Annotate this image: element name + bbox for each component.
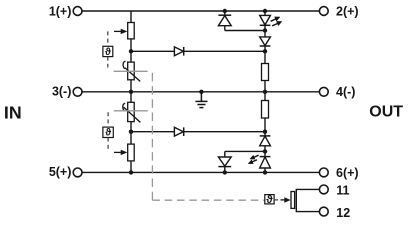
thermal sensor theta box TH1 [103,46,113,56]
svg-text:IN: IN [4,102,22,122]
node L (junction bottom rail x224.8) [223,170,227,174]
thermal sensor theta box TH3 (remote signalling) [265,195,274,204]
wire middle rail to varistor RV2 [130,92,132,103]
wire corner to diode D6 [224,151,226,157]
signalling contact actuator arrow [281,197,291,202]
varistor RV1 symbol diagonal [125,68,140,82]
thermal sensor theta box TH2 [103,127,113,137]
wire diode D3 corner to node H [225,30,265,32]
wire node K to diode D6 branch [225,150,265,152]
diode D5 (above LED2) [260,136,271,146]
terminal 6(+) [319,168,328,177]
node C (junction x131 y131.7) [129,130,133,134]
svg-text:ϑ: ϑ [105,47,111,58]
terminal 5(+) [73,168,82,177]
node M (junction bottom rail x265) [263,170,267,174]
varistor RV2 thermal disconnect hook [123,103,125,111]
svg-text:6(+): 6(+) [336,166,359,180]
node I (junction top rail x265) [263,9,267,13]
terminal 3(-) [73,87,82,96]
resistor F1 (series protection, line 1+) [128,23,135,39]
terminal 1(+) [73,7,82,16]
terminal 4(-) [319,87,328,96]
diode D3 (cathode to top rail) [218,15,231,26]
svg-text:12: 12 [336,206,350,220]
resistor F2 (series protection, line 5+) [128,144,135,161]
mechanical coupling dashed vertical link to signalling contact [151,71,153,200]
ground [195,101,207,107]
svg-text:1(+): 1(+) [49,4,72,18]
mechanical coupling dashed horizontal link to signalling contact [152,199,264,201]
wire diode D4 to resistor R1 [264,46,266,64]
thermal coupling dashed link below theta box TH1 [107,57,109,68]
diode D2 (horizontal, lower decoupling) [174,127,183,136]
wire resistor F2 to bottom rail [130,161,132,173]
wire middle rail to ground [200,92,202,102]
wire top rail from terminal 1(+) to terminal 2(+) [82,10,319,12]
wire diode D2 to node F [184,131,265,133]
wire top rail to LED1 [264,11,266,15]
wire node A to diode D1 [131,50,174,52]
varistor RV1 thermal disconnect hook [123,61,125,69]
varistor RV1 [128,62,135,80]
diode D1 (horizontal, upper decoupling) [174,47,183,56]
dashed link theta box TH3 to actuator [274,199,281,201]
varistor RV2 symbol diagonal [124,107,141,122]
mechanical coupling line through varistor RV2 [114,110,148,112]
resistor R2 [262,101,269,119]
diode D4 (below LED1) [260,37,271,46]
wire node C to diode D2 [131,131,174,133]
svg-text:2(+): 2(+) [336,4,359,18]
svg-text:5(+): 5(+) [49,165,72,179]
wire varistor RV2 to node C [130,122,132,145]
thermal coupling dashed link below theta box TH2 [107,138,109,151]
node K (junction x265 y151.4) [263,149,267,153]
wire diode D3 down to corner [224,26,226,31]
node E (junction x265 y51.3) [263,49,267,53]
node H (junction x265 y30.5) [263,28,267,32]
wire LED1 to diode D4 [264,25,266,37]
wire middle rail to resistor R2 [264,92,266,101]
mechanical coupling line through varistor RV1 [114,70,148,72]
terminal 12 [319,207,328,216]
terminal 11 [319,185,328,194]
svg-text:4(-): 4(-) [336,85,355,99]
diode D6 (cathode to bottom rail) [218,157,231,167]
node N (ground tap on middle rail) [199,90,203,94]
thermal coupling dashed link above theta box TH1 [107,31,109,46]
svg-text:11: 11 [336,184,349,198]
thermal coupling dashed link above theta box TH2 [107,112,109,127]
wire resistor R2 to diode D5 [264,118,266,136]
node D (junction bottom rail x131) [129,170,133,174]
wire resistor F1 to node A [130,39,132,62]
wire varistor RV1 to middle rail [130,80,132,92]
node J (junction middle rail x265) [263,90,267,94]
node A (junction x131 y51.3) [129,49,133,53]
node F (junction x265 y131.7) [263,130,267,134]
LED LED2 emission arrows [248,155,258,163]
signalling contact S1 movable bridge [291,192,295,209]
wire top rail to diode D3 [224,11,226,15]
LED LED2 (status indicator, bottom) [260,157,271,168]
node B (junction middle rail x131) [129,90,133,94]
svg-text:ϑ: ϑ [105,128,111,139]
wire diode D5 to LED2 [264,146,266,157]
LED LED1 (status indicator, top) [260,15,271,25]
wire LED2 to bottom rail [264,168,266,172]
wire bottom rail from terminal 5(+) to terminal 6(+) [82,171,319,173]
node G (junction top rail x224.8) [223,9,227,13]
thermal disconnect actuator arrow for F2 [114,150,127,155]
svg-text:ϑ: ϑ [266,194,273,206]
terminal 2(+) [319,7,328,16]
thermal disconnect actuator arrow for F1 [114,29,127,34]
wire signalling contact to terminals 11 and 12 [296,189,319,211]
svg-text:OUT: OUT [369,104,403,121]
wire resistor R1 to middle rail [264,81,266,92]
theta glyph in box TH1 [105,47,273,206]
wire diode D6 to bottom rail [224,167,226,173]
wire top rail to fuse resistor F1 [130,11,132,23]
svg-text:3(-): 3(-) [52,84,71,98]
varistor RV2 [128,102,135,121]
wire middle rail from terminal 3(-) to terminal 4(-) [82,91,319,93]
wire diode D1 to node E [184,50,265,52]
resistor R1 [262,64,269,81]
LED LED1 emission arrows [271,17,282,26]
